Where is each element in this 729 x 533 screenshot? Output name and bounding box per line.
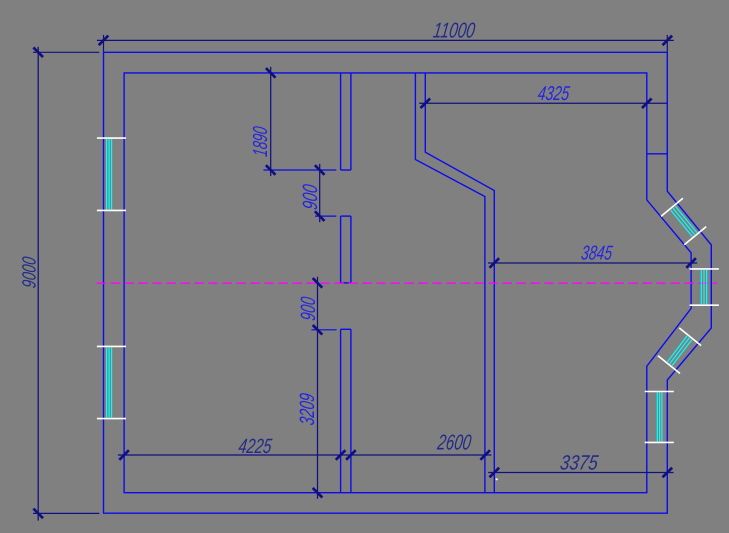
svg-text:4225: 4225 [237,435,274,458]
svg-text:4325: 4325 [537,81,572,104]
svg-text:2600: 2600 [435,430,473,454]
svg-text:1890: 1890 [248,125,271,158]
svg-text:900: 900 [299,183,322,211]
svg-text:3375: 3375 [559,452,600,475]
svg-text:900: 900 [296,295,319,322]
svg-text:3845: 3845 [580,241,614,264]
svg-text:11000: 11000 [432,18,477,42]
svg-text:9000: 9000 [18,255,40,289]
svg-text:3209: 3209 [295,392,318,427]
